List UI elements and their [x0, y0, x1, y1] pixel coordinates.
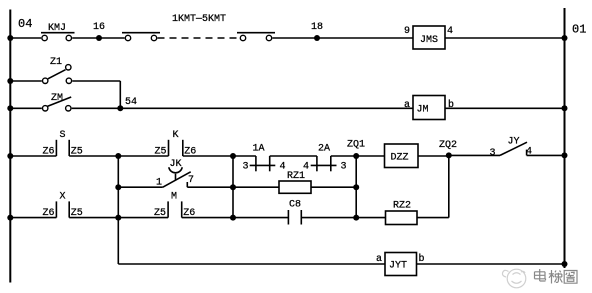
wire row4 seg3 — [118, 217, 168, 219]
junction row3-B — [230, 153, 236, 159]
bridge contact 1A (pins 3/4) — [243, 144, 286, 173]
svg-text:a: a — [376, 254, 382, 265]
wire row3 seg7 — [331, 155, 356, 157]
junction JK-right — [230, 184, 236, 190]
svg-text:JK: JK — [170, 159, 182, 170]
wire row3 seg3 — [118, 155, 168, 157]
wire right bus — [564, 8, 566, 268]
wire JY seg2 — [527, 154, 565, 156]
wire JK seg2 — [187, 186, 233, 188]
junction row3-A — [115, 153, 121, 159]
wire ZM seg3 — [120, 107, 413, 109]
svg-text:JMS: JMS — [420, 35, 438, 46]
node 16 — [93, 22, 105, 41]
junction row3-left bus — [7, 153, 13, 159]
svg-text:9: 9 — [404, 26, 410, 37]
wire Z1 seg2 — [72, 80, 120, 82]
wire row4 seg1 — [10, 217, 56, 219]
bridge contact 2A (pins 4/3) — [303, 144, 347, 173]
svg-text:2A: 2A — [318, 144, 330, 155]
node 04 — [18, 17, 32, 31]
wire JM seg — [445, 107, 565, 109]
wire row3 seg1 — [10, 155, 56, 157]
svg-text:1KMT—5KMT: 1KMT—5KMT — [172, 14, 226, 25]
svg-text:S: S — [60, 130, 66, 141]
svg-text:X: X — [60, 192, 66, 203]
wire row1 seg1 — [10, 37, 41, 39]
connector K (Z5/Z6) — [155, 130, 197, 158]
wire row1 seg5 — [317, 37, 413, 39]
wire row3 seg6 — [270, 155, 317, 157]
connector S (Z6/Z5) — [43, 130, 83, 158]
contact 5KMT — [237, 33, 275, 41]
watermark logo — [502, 269, 525, 288]
junction JY-right bus — [562, 152, 568, 158]
svg-text:4: 4 — [280, 162, 286, 173]
junction Z1-left bus — [7, 78, 13, 84]
svg-text:18: 18 — [311, 22, 323, 33]
wire JY seg1 — [449, 154, 500, 156]
label 1KMT-5KMT — [172, 14, 226, 25]
svg-text:3: 3 — [243, 162, 249, 173]
junction RZ1-right — [353, 184, 359, 190]
wire left bus — [9, 10, 11, 283]
svg-text:ZQ1: ZQ1 — [347, 140, 365, 151]
junction JYT-right bus — [562, 261, 568, 267]
wire row3 seg2 — [69, 155, 118, 157]
svg-text:Z1: Z1 — [50, 57, 62, 68]
svg-text:b: b — [448, 99, 454, 111]
node 01 — [572, 23, 586, 37]
svg-text:1A: 1A — [253, 144, 265, 155]
wire ZM seg1 — [10, 107, 42, 109]
wire row1 seg4 — [272, 37, 317, 39]
junction C8-right — [353, 215, 359, 221]
svg-text:JYT: JYT — [389, 261, 407, 272]
svg-text:3: 3 — [341, 162, 347, 173]
wire row4 seg4 — [182, 217, 233, 219]
connector M (Z5/Z6) — [154, 192, 195, 220]
wire row1 seg2 — [72, 37, 99, 39]
svg-text:KMJ: KMJ — [48, 23, 66, 34]
switch ZM — [43, 93, 72, 111]
svg-text:Z6: Z6 — [43, 208, 55, 219]
wire row4 seg6 — [301, 217, 356, 219]
wire row1 seg3 — [99, 37, 125, 39]
switch JK (pins 1/7) — [156, 159, 194, 189]
resistor RZ2 — [386, 201, 418, 225]
capacitor C8 — [288, 200, 301, 225]
svg-text:JY: JY — [508, 137, 520, 148]
node ZQ2 — [439, 140, 457, 158]
node 54 — [117, 97, 137, 111]
svg-text:M: M — [171, 192, 177, 203]
connector X (Z6/Z5) — [43, 192, 83, 220]
wire RZ2-to-ZQ2 vertical — [448, 155, 450, 217]
svg-text:01: 01 — [572, 23, 586, 37]
svg-text:1: 1 — [156, 178, 162, 189]
relay JM — [404, 96, 454, 120]
wire vertical ZQ1-down (x356) — [355, 156, 357, 218]
svg-text:3: 3 — [490, 148, 496, 159]
watermark text 电梯圈 — [535, 269, 578, 284]
switch Z1 — [43, 57, 72, 84]
junction ZM-left bus — [7, 105, 13, 111]
wire row4 seg7 — [356, 217, 385, 219]
svg-text:16: 16 — [93, 22, 105, 33]
wire row4 seg8 — [417, 217, 449, 219]
svg-text:JM: JM — [417, 105, 429, 116]
svg-text:C8: C8 — [289, 200, 301, 211]
svg-text:RZ2: RZ2 — [393, 201, 411, 212]
junction row4-A — [115, 215, 121, 221]
svg-text:Z6: Z6 — [43, 147, 55, 158]
wire row4 seg2 — [69, 217, 118, 219]
resistor RZ1 — [279, 171, 311, 193]
wire JYT riser — [118, 263, 385, 265]
wire RZ1 seg2 — [311, 186, 356, 188]
wire row3 seg9 — [418, 155, 449, 157]
svg-text:04: 04 — [18, 17, 32, 31]
wire RZ1 seg1 — [233, 186, 279, 188]
wire dashed row1 — [158, 37, 240, 39]
wire row4 seg5 — [233, 217, 288, 219]
svg-text:Z5: Z5 — [155, 147, 167, 158]
wire vertical B (x233) — [232, 156, 234, 218]
contact 1KMT — [122, 33, 160, 41]
relay JMS — [404, 26, 453, 49]
switch JY (pins 3/4) — [490, 137, 533, 160]
wire Z1 seg1 — [10, 80, 42, 82]
svg-text:DZZ: DZZ — [391, 153, 409, 164]
junction row1-left bus — [7, 35, 13, 41]
svg-text:a: a — [404, 100, 410, 111]
svg-text:RZ1: RZ1 — [287, 171, 305, 182]
wire Z1-to-54 vertical — [119, 81, 121, 108]
svg-text:ZM: ZM — [51, 93, 63, 104]
svg-text:Z5: Z5 — [154, 208, 166, 219]
junction row4-B — [230, 215, 236, 221]
svg-text:ZQ2: ZQ2 — [439, 140, 457, 151]
junction row4-left bus — [7, 215, 13, 221]
wire row3 seg4 — [183, 155, 233, 157]
relay JYT — [376, 253, 425, 276]
contact KMJ — [41, 23, 75, 41]
wire row1 seg6 — [445, 37, 565, 39]
wire vertical A (x118) — [117, 156, 119, 264]
wire JYT seg2 — [417, 263, 565, 265]
svg-text:7: 7 — [188, 175, 194, 186]
svg-text:54: 54 — [125, 97, 137, 108]
svg-text:4: 4 — [447, 26, 453, 37]
wire ZM seg2 — [72, 107, 121, 109]
relay DZZ — [385, 144, 419, 168]
junction JM-right bus — [562, 105, 568, 111]
wire JK seg1 — [118, 186, 163, 188]
junction JK-left — [115, 184, 121, 190]
junction row1-right bus — [562, 35, 568, 41]
svg-text:K: K — [173, 130, 179, 141]
wire row3 seg8 — [356, 155, 384, 157]
node ZQ1 — [347, 140, 365, 160]
node 18 — [311, 22, 323, 41]
wire row3 seg5 — [233, 155, 256, 157]
